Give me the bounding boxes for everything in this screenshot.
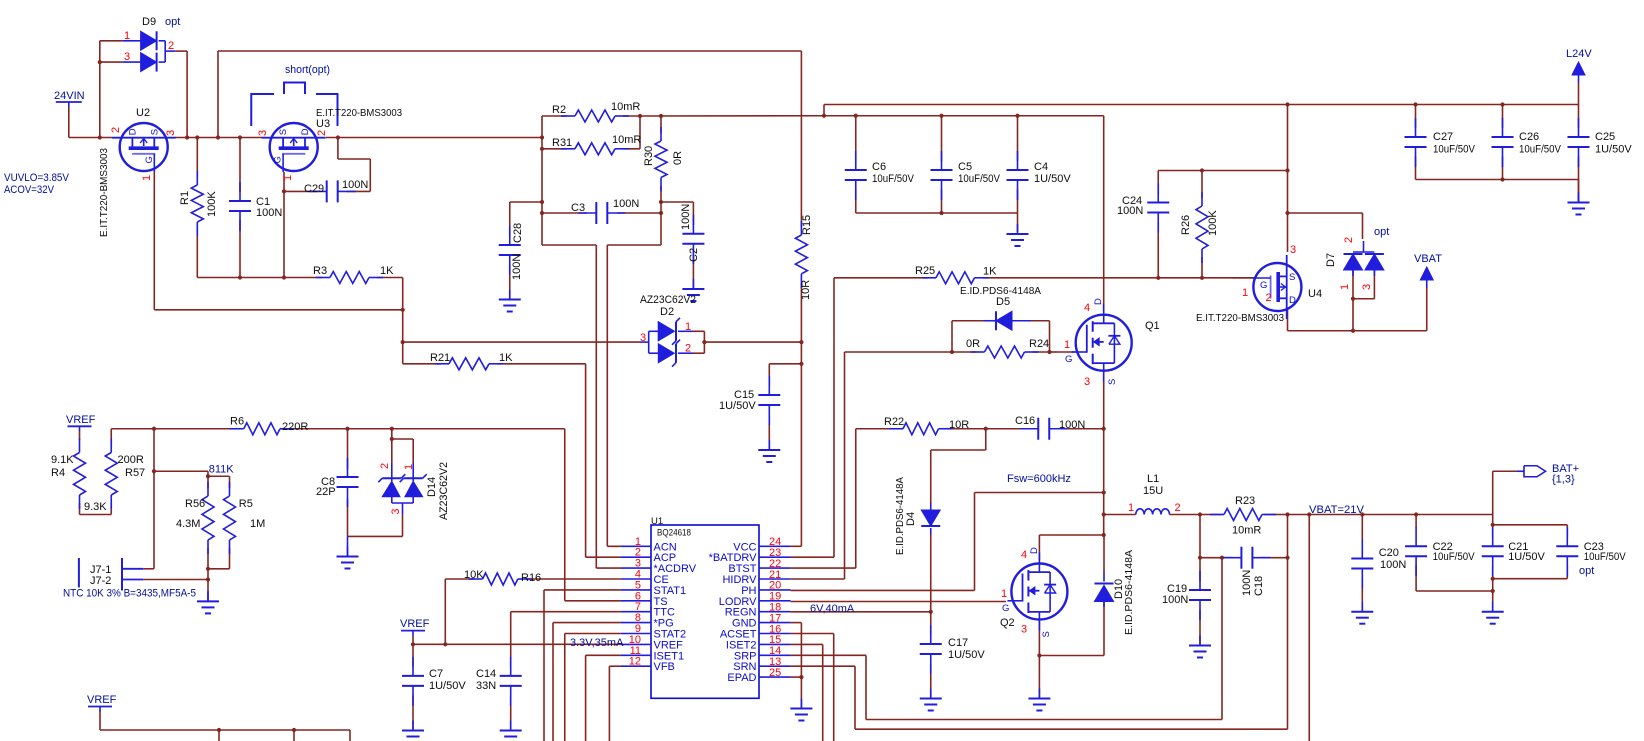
svg-text:R26: R26 [1180, 215, 1192, 235]
svg-text:1: 1 [685, 321, 691, 333]
svg-text:Q1: Q1 [1145, 320, 1160, 332]
svg-text:2: 2 [1175, 502, 1181, 514]
svg-text:{1,3}: {1,3} [1552, 474, 1575, 486]
svg-text:VBAT: VBAT [1414, 253, 1442, 265]
svg-text:100N: 100N [511, 254, 523, 280]
svg-text:0R: 0R [672, 151, 684, 165]
svg-text:1: 1 [1339, 284, 1351, 290]
svg-text:C6: C6 [872, 161, 886, 173]
svg-text:3: 3 [640, 332, 646, 344]
svg-text:2: 2 [685, 343, 691, 355]
svg-text:R57: R57 [125, 467, 145, 479]
svg-text:100N: 100N [1380, 559, 1406, 571]
svg-text:C14: C14 [476, 668, 496, 680]
svg-text:VUVLO=3.85V: VUVLO=3.85V [4, 172, 70, 184]
svg-text:2: 2 [1343, 237, 1355, 243]
svg-text:D7: D7 [1325, 253, 1337, 267]
svg-text:12: 12 [629, 656, 641, 668]
svg-text:E.IT.T220-BMS3003: E.IT.T220-BMS3003 [1196, 312, 1284, 324]
svg-text:NTC 10K 3% B=3435,MF5A-5: NTC 10K 3% B=3435,MF5A-5 [63, 588, 196, 600]
svg-text:opt: opt [1579, 565, 1594, 577]
svg-text:R24: R24 [1029, 338, 1049, 350]
svg-text:D: D [300, 128, 311, 135]
svg-text:100N: 100N [613, 198, 639, 210]
svg-text:D14: D14 [426, 477, 438, 497]
svg-text:9.1K: 9.1K [51, 454, 74, 466]
svg-text:C7: C7 [429, 668, 443, 680]
svg-text:2: 2 [316, 130, 328, 136]
svg-text:J7-2: J7-2 [90, 575, 111, 587]
svg-text:C4: C4 [1034, 161, 1048, 173]
svg-text:L1: L1 [1147, 473, 1159, 485]
svg-text:opt: opt [165, 16, 180, 28]
svg-text:short(opt): short(opt) [285, 64, 330, 76]
svg-text:100N: 100N [342, 179, 368, 191]
svg-text:10K: 10K [464, 569, 484, 581]
svg-text:AZ23C62V2: AZ23C62V2 [640, 294, 696, 306]
svg-text:VREF: VREF [87, 694, 117, 706]
svg-text:C25: C25 [1595, 131, 1615, 143]
svg-text:VFB: VFB [654, 661, 675, 673]
svg-text:10uF/50V: 10uF/50V [958, 173, 1001, 185]
svg-text:VBAT=21V: VBAT=21V [1309, 504, 1365, 516]
svg-text:3: 3 [124, 51, 130, 63]
svg-text:C27: C27 [1433, 131, 1453, 143]
svg-text:C17: C17 [948, 637, 968, 649]
svg-text:2: 2 [168, 40, 174, 52]
svg-text:1: 1 [141, 175, 153, 181]
svg-text:C28: C28 [512, 223, 524, 243]
svg-text:10uF/50V: 10uF/50V [872, 173, 915, 185]
svg-text:R31: R31 [552, 137, 572, 149]
svg-text:10uF/50V: 10uF/50V [1584, 551, 1627, 563]
svg-text:100N: 100N [1162, 594, 1188, 606]
svg-text:E.IT.T220-BMS3003: E.IT.T220-BMS3003 [98, 148, 110, 237]
svg-text:10uF/50V: 10uF/50V [1433, 144, 1476, 156]
svg-text:3: 3 [1361, 284, 1373, 290]
svg-text:D2: D2 [660, 306, 674, 318]
svg-text:100K: 100K [206, 191, 218, 217]
svg-text:C3: C3 [571, 202, 585, 214]
svg-text:1U/50V: 1U/50V [948, 649, 985, 661]
svg-text:R56: R56 [185, 498, 205, 510]
svg-text:R16: R16 [521, 572, 541, 584]
svg-text:G: G [1065, 354, 1072, 365]
svg-text:10R: 10R [949, 419, 969, 431]
svg-text:R23: R23 [1235, 495, 1255, 507]
svg-text:R2: R2 [552, 104, 566, 116]
svg-text:G: G [1002, 603, 1009, 614]
svg-text:1M: 1M [250, 518, 265, 530]
svg-text:1: 1 [1242, 287, 1248, 299]
svg-text:1: 1 [124, 30, 130, 42]
svg-text:4: 4 [1084, 302, 1090, 314]
svg-text:1U/50V: 1U/50V [1034, 173, 1071, 185]
svg-text:D5: D5 [996, 296, 1010, 308]
svg-text:1: 1 [1128, 502, 1134, 514]
svg-text:D4: D4 [905, 512, 917, 526]
svg-text:R6: R6 [230, 416, 244, 428]
svg-text:1: 1 [1064, 339, 1070, 351]
svg-text:811K: 811K [209, 464, 235, 476]
svg-text:1: 1 [403, 464, 415, 470]
svg-text:S: S [1107, 379, 1118, 385]
svg-text:10uF/50V: 10uF/50V [1433, 551, 1476, 563]
svg-text:L24V: L24V [1566, 48, 1592, 60]
svg-text:Q2: Q2 [1000, 617, 1015, 629]
svg-text:1K: 1K [380, 265, 394, 277]
svg-text:C26: C26 [1519, 131, 1539, 143]
svg-text:1: 1 [282, 175, 294, 181]
svg-text:100N: 100N [1059, 419, 1085, 431]
svg-text:3: 3 [165, 130, 177, 136]
svg-text:1U/50V: 1U/50V [429, 680, 466, 692]
svg-text:1U/50V: 1U/50V [1595, 144, 1632, 156]
svg-text:E.ID.PDS6-4148A: E.ID.PDS6-4148A [1123, 550, 1135, 635]
svg-text:Fsw=600kHz: Fsw=600kHz [1007, 473, 1071, 485]
svg-text:S: S [1289, 272, 1295, 283]
svg-text:10uF/50V: 10uF/50V [1519, 144, 1562, 156]
svg-text:D: D [1289, 295, 1296, 306]
svg-text:D9: D9 [142, 16, 156, 28]
svg-text:3: 3 [1084, 376, 1090, 388]
svg-text:2: 2 [379, 463, 391, 469]
svg-text:R5: R5 [239, 498, 253, 510]
svg-text:AZ23C62V2: AZ23C62V2 [438, 462, 450, 520]
svg-text:U1: U1 [651, 516, 663, 527]
svg-text:C20: C20 [1379, 547, 1399, 559]
svg-text:100N: 100N [256, 207, 282, 219]
svg-text:200R: 200R [118, 454, 144, 466]
svg-text:0R: 0R [966, 338, 980, 350]
svg-text:1K: 1K [983, 266, 997, 278]
svg-text:BQ24618: BQ24618 [657, 528, 691, 539]
svg-text:6V,40mA: 6V,40mA [810, 603, 855, 615]
svg-text:U3: U3 [316, 118, 330, 130]
svg-text:4: 4 [1021, 549, 1027, 561]
svg-text:2: 2 [1266, 292, 1272, 304]
svg-text:R15: R15 [801, 215, 813, 235]
svg-text:D: D [1093, 298, 1104, 305]
svg-text:10R: 10R [800, 280, 812, 300]
svg-text:2: 2 [110, 127, 122, 133]
svg-text:ACOV=32V: ACOV=32V [4, 184, 55, 196]
svg-text:25: 25 [769, 667, 781, 679]
svg-text:R1: R1 [179, 191, 191, 205]
svg-text:22P: 22P [316, 486, 336, 498]
svg-text:1: 1 [1001, 588, 1007, 600]
svg-text:R4: R4 [51, 467, 65, 479]
svg-text:220R: 220R [282, 421, 308, 433]
svg-text:1U/50V: 1U/50V [719, 400, 756, 412]
svg-text:1K: 1K [499, 352, 513, 364]
svg-text:D: D [1029, 547, 1040, 554]
svg-text:G: G [144, 156, 155, 163]
svg-text:10mR: 10mR [612, 134, 641, 146]
svg-text:R22: R22 [884, 416, 904, 428]
svg-text:C2: C2 [688, 248, 700, 262]
svg-text:24VIN: 24VIN [54, 90, 85, 102]
svg-text:10mR: 10mR [1232, 525, 1261, 537]
svg-text:R3: R3 [313, 265, 327, 277]
svg-text:100N: 100N [680, 204, 692, 230]
svg-text:C18: C18 [1253, 576, 1265, 596]
svg-text:S: S [278, 129, 289, 135]
svg-text:3: 3 [1290, 244, 1296, 256]
svg-text:4.3M: 4.3M [176, 518, 200, 530]
svg-text:100K: 100K [1207, 210, 1219, 236]
svg-text:C29: C29 [304, 183, 324, 195]
svg-text:33N: 33N [476, 680, 496, 692]
svg-text:3: 3 [1021, 624, 1027, 636]
svg-text:VREF: VREF [66, 414, 96, 426]
svg-text:10mR: 10mR [611, 101, 640, 113]
svg-text:S: S [1041, 631, 1052, 637]
svg-text:C5: C5 [958, 161, 972, 173]
svg-text:U4: U4 [1308, 288, 1322, 300]
svg-text:R25: R25 [915, 265, 935, 277]
svg-text:G: G [1260, 280, 1267, 291]
svg-text:15U: 15U [1143, 485, 1163, 497]
svg-text:U2: U2 [136, 107, 150, 119]
svg-text:R21: R21 [430, 352, 450, 364]
svg-text:VREF: VREF [400, 618, 430, 630]
svg-text:3.3V,35mA: 3.3V,35mA [570, 637, 624, 649]
svg-text:S: S [149, 129, 160, 135]
svg-text:3: 3 [257, 130, 269, 136]
svg-text:1U/50V: 1U/50V [1508, 551, 1545, 563]
svg-text:9.3K: 9.3K [84, 501, 107, 513]
svg-text:R30: R30 [643, 146, 655, 166]
svg-text:EPAD: EPAD [727, 672, 756, 684]
svg-text:100N: 100N [1241, 570, 1253, 596]
svg-text:G: G [273, 156, 284, 163]
svg-text:opt: opt [1374, 226, 1389, 238]
svg-text:3: 3 [390, 508, 402, 514]
svg-text:100N: 100N [1117, 205, 1143, 217]
svg-text:C16: C16 [1015, 415, 1035, 427]
svg-text:D: D [127, 128, 138, 135]
